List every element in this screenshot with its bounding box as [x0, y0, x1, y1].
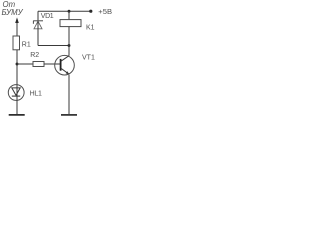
- wire: HL1 cathode to ground: [16, 96, 18, 114]
- svg-text:K1: K1: [86, 24, 95, 31]
- zener diode VD1: [33, 11, 54, 45]
- svg-text:VD1: VD1: [41, 13, 54, 20]
- wire: R2 to VT1 base: [44, 63, 61, 65]
- LED HL1: [8, 85, 42, 101]
- svg-text:R2: R2: [30, 52, 39, 59]
- svg-text:HL1: HL1: [30, 91, 42, 98]
- relay coil K1: [60, 11, 95, 31]
- node: junction rail/K1: [68, 10, 71, 13]
- wire: VT1 emitter to ground: [68, 75, 70, 114]
- svg-text:VT1: VT1: [82, 54, 95, 61]
- wire: input arrow up to От БУМУ: [15, 17, 19, 36]
- svg-text:БУМУ: БУМУ: [2, 8, 24, 17]
- net +5В rail: [38, 7, 112, 16]
- resistor R1: [13, 36, 31, 50]
- svg-text:R1: R1: [22, 41, 31, 48]
- ground (emitter): [61, 114, 77, 116]
- node: junction R1/R2/HL1: [16, 63, 19, 66]
- wire: junction to R2: [17, 63, 33, 65]
- transistor VT1: [55, 54, 95, 75]
- wire: R1 bottom to LED HL1: [16, 50, 18, 85]
- wire: K1 bottom to VT1 collector: [68, 27, 70, 56]
- ground (LED): [9, 114, 25, 116]
- svg-text:+5В: +5В: [98, 7, 112, 16]
- resistor R2: [30, 52, 44, 66]
- node: input label "От БУМУ": [2, 0, 24, 17]
- node: junction VD1/collector: [68, 44, 71, 47]
- wire: VD1 anode to collector node: [38, 45, 69, 47]
